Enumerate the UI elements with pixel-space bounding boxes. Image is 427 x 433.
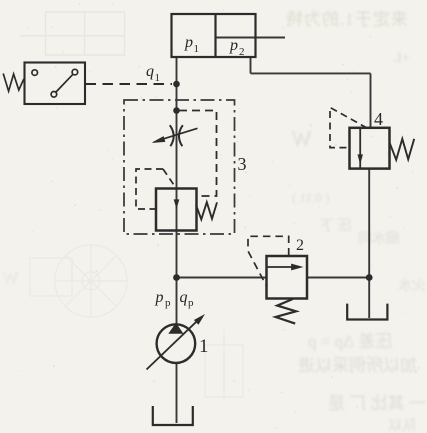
svg-text:细水同: 细水同 xyxy=(358,231,400,247)
svg-text:q: q xyxy=(180,289,188,306)
svg-text:p: p xyxy=(165,297,171,309)
svg-text:压差 Δp = p: 压差 Δp = p xyxy=(308,332,392,351)
svg-text:p: p xyxy=(188,297,194,309)
svg-text:4: 4 xyxy=(374,109,383,129)
svg-text:压 下: 压 下 xyxy=(320,219,352,234)
svg-text:q: q xyxy=(146,63,154,80)
svg-text:1: 1 xyxy=(194,43,200,55)
svg-text:p: p xyxy=(229,37,238,54)
svg-text:3: 3 xyxy=(238,154,247,174)
svg-text:+L: +L xyxy=(393,51,409,66)
svg-text:p: p xyxy=(155,289,164,306)
svg-text:来定于1.的为特: 来定于1.的为特 xyxy=(285,10,408,29)
svg-text:p: p xyxy=(184,34,193,51)
svg-text:W: W xyxy=(291,126,312,151)
svg-text:2: 2 xyxy=(296,237,304,254)
svg-text:队以: 队以 xyxy=(388,418,416,433)
svg-text:加以所例采以进: 加以所例采以进 xyxy=(298,356,417,375)
svg-text:1: 1 xyxy=(199,336,209,357)
svg-text:1: 1 xyxy=(155,72,161,84)
svg-text:( 0.11 ): ( 0.11 ) xyxy=(292,190,329,205)
svg-text:2: 2 xyxy=(239,46,245,58)
svg-text:一 其比 厂 是: 一 其比 厂 是 xyxy=(328,394,426,413)
svg-text:W: W xyxy=(2,268,19,288)
